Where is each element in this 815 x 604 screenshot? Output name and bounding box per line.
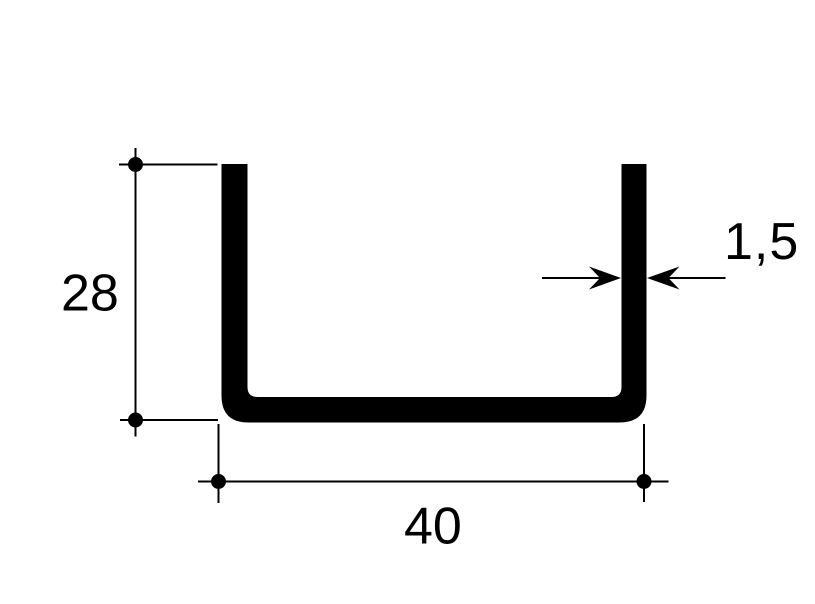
dimension 1,5: right arrowhead [647, 267, 680, 290]
dimension 28: bottom dot [128, 413, 143, 428]
dimension 28: top witness line [119, 164, 218, 166]
dimension 40: left witness line [218, 424, 220, 503]
svg-text:28: 28 [61, 265, 119, 323]
dimension 40: right dot [637, 474, 652, 489]
dimension 28: vertical dimension line [135, 148, 137, 437]
dimension 40: horizontal dimension line [198, 481, 669, 483]
dimension 1,5: left arrowhead [589, 267, 621, 290]
dimension 40: left dot [211, 474, 226, 489]
dimension 28: bottom witness line [120, 419, 218, 421]
dimension 40: right witness line [643, 424, 645, 502]
svg-text:1,5: 1,5 [724, 213, 799, 271]
dimension 1,5: left arrow tail [542, 277, 601, 279]
U-channel profile [222, 164, 647, 423]
dimension 28: top dot [128, 157, 143, 172]
dimension 1,5: right arrow tail [668, 277, 726, 279]
svg-text:40: 40 [404, 498, 462, 556]
